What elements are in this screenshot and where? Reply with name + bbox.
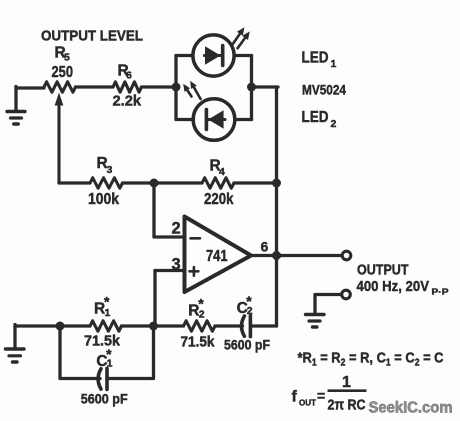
wire: lower terminal to ground [315, 295, 341, 314]
wire: C1 branch left [60, 326, 100, 379]
op-amp U1 741 [185, 217, 252, 293]
resistor R6 zigzag [113, 82, 142, 92]
LED D1 (LED1) [193, 35, 234, 76]
svg-text:5600 pF: 5600 pF [81, 392, 128, 407]
wire: bottom-left ground to R1 [15, 324, 90, 327]
wire: LED block to right rail [252, 85, 279, 88]
ground (bottom left) [6, 349, 25, 362]
svg-text:741: 741 [206, 248, 228, 265]
svg-text:=: = [317, 388, 325, 404]
svg-text:2: 2 [172, 220, 181, 238]
wire: C1 branch right [109, 326, 154, 379]
ground (output reference) [306, 315, 325, 328]
svg-text:OUT: OUT [299, 398, 317, 408]
svg-text:4: 4 [219, 166, 225, 178]
svg-text:1: 1 [331, 58, 337, 70]
junction: R3/R4 node [150, 179, 159, 188]
resistor R4 zigzag [202, 178, 234, 188]
wire: node to op-amp pin 2 [154, 183, 185, 237]
lower output terminal circle [342, 290, 351, 299]
wire: C2 to right rail [252, 324, 276, 327]
svg-text:2.2k: 2.2k [113, 93, 142, 110]
capacitor C2 [242, 316, 251, 337]
svg-text:71.5k: 71.5k [84, 334, 121, 350]
wire: out of LED2 [235, 118, 252, 121]
svg-text:1: 1 [107, 358, 113, 370]
junction: LED right node [247, 83, 256, 92]
svg-text:OUTPUT: OUTPUT [357, 263, 409, 279]
wire: LED block right vertical [250, 56, 253, 120]
wire: wiper corner to R3 [59, 181, 90, 184]
svg-text:LED: LED [302, 50, 329, 67]
resistor R2 zigzag [184, 321, 216, 331]
svg-text:OUTPUT LEVEL: OUTPUT LEVEL [41, 28, 143, 45]
svg-text:6: 6 [261, 239, 269, 255]
wire: ground drop at top-left [14, 87, 17, 112]
svg-text:P·P: P·P [432, 287, 449, 297]
resistor R1 zigzag [90, 321, 122, 331]
svg-text:5: 5 [64, 52, 70, 64]
wire: R4 to right rail [234, 181, 277, 184]
svg-text:5600 pF: 5600 pF [224, 338, 270, 353]
svg-text:3: 3 [107, 164, 113, 176]
svg-text:220k: 220k [204, 191, 234, 208]
svg-text:2: 2 [247, 305, 253, 317]
junction: R1/R2/C1 node [149, 322, 158, 331]
wire: R5 to R6 [76, 85, 114, 88]
LED2 light arrows [183, 81, 200, 99]
svg-text:1: 1 [105, 307, 111, 319]
wire: R2 to C2 [215, 324, 243, 327]
wire: R3 to R4 [123, 181, 203, 184]
formula f_OUT = 1/(2 pi RC) [292, 374, 367, 414]
wire: into LED2 [176, 118, 194, 121]
junction: R1/C1 left node [56, 322, 65, 331]
svg-text:2: 2 [199, 309, 205, 321]
wire: into LED1 [176, 54, 193, 57]
potentiometer R5 zigzag [44, 82, 76, 92]
wire: top-left ground stub to R5 [16, 86, 44, 89]
svg-text:1: 1 [342, 374, 351, 391]
wire: op-amp pin 3 lead [155, 269, 185, 272]
svg-text:250: 250 [52, 64, 74, 81]
svg-text:2π RC: 2π RC [328, 397, 366, 414]
LED D2 (LED2) [193, 99, 235, 141]
LED1 light arrows [233, 27, 250, 48]
svg-text:SeekIC.com: SeekIC.com [369, 400, 453, 417]
svg-text:6: 6 [126, 70, 132, 82]
output terminal circle [342, 251, 351, 260]
wire: pin 3 down to R1/R2 node [153, 271, 156, 327]
wire: R1 to R2 [122, 324, 184, 327]
wire: right vertical rail [275, 87, 278, 326]
capacitor C1 [98, 368, 107, 389]
wire: R6 to LED block [142, 85, 177, 88]
svg-text:3: 3 [172, 256, 181, 274]
svg-text:100k: 100k [88, 191, 119, 208]
svg-text:*R1 = R2 = R, C1 = C2 = C: *R1 = R2 = R, C1 = C2 = C [298, 350, 444, 369]
wire: op-amp output to terminal [251, 254, 342, 257]
resistor R3 zigzag [90, 178, 123, 188]
wire: LED block left vertical [174, 56, 177, 120]
output node diamond junction [270, 249, 282, 261]
svg-text:2: 2 [331, 118, 337, 130]
svg-text:f: f [292, 389, 298, 406]
wire: out of LED1 [235, 54, 252, 57]
wire: ground drop bottom-left [13, 325, 16, 349]
svg-text:LED: LED [302, 109, 329, 126]
R5 wiper arrow [57, 104, 60, 183]
junction: R4/rail node [272, 179, 281, 188]
svg-text:400 Hz, 20V: 400 Hz, 20V [357, 278, 430, 295]
svg-text:MV5024: MV5024 [302, 82, 346, 98]
ground (top left) [7, 112, 25, 125]
junction: LED left node [172, 83, 181, 92]
svg-text:71.5k: 71.5k [181, 335, 216, 351]
